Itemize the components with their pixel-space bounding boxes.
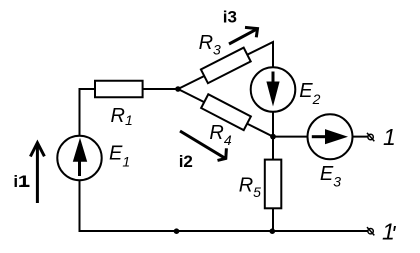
svg-text:i2: i2 <box>179 152 193 171</box>
svg-text:R3: R3 <box>199 32 221 58</box>
svg-text:1: 1 <box>383 124 396 150</box>
svg-text:R5: R5 <box>239 174 261 200</box>
svg-text:E2: E2 <box>299 80 320 107</box>
svg-text:': ' <box>391 221 397 247</box>
svg-text:R4: R4 <box>209 122 231 148</box>
svg-text:E3: E3 <box>320 163 341 190</box>
svg-text:R1: R1 <box>111 105 133 128</box>
svg-text:i3: i3 <box>223 8 237 27</box>
svg-text:E1: E1 <box>109 143 130 170</box>
svg-text:1: 1 <box>18 172 30 191</box>
